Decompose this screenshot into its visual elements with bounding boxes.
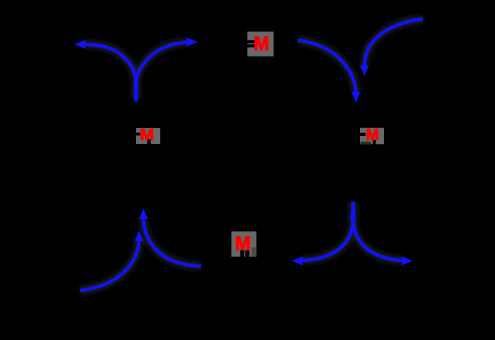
- wire: bottom-right diverging arrow, left branch: [302, 202, 353, 261]
- svg-text:M: M: [140, 127, 154, 144]
- node TL-left arrowhead: [75, 40, 86, 49]
- wire: top-left diverging arrow, left branch: [85, 44, 136, 99]
- svg-text:M: M: [235, 233, 251, 255]
- node top-right metal label box: [360, 128, 384, 144]
- wire: top-right converging arrow, left branch: [298, 40, 356, 93]
- node TL stem taper: [134, 99, 138, 103]
- node TL-right arrowhead: [187, 38, 198, 47]
- node TR-right arrowhead: [360, 65, 369, 76]
- node BR-right arrowhead: [402, 256, 413, 265]
- svg-text:M: M: [366, 127, 379, 144]
- node BR stem bulge: [350, 211, 356, 225]
- wire: top-left diverging arrow, right branch: [136, 42, 188, 99]
- svg-text:M: M: [254, 33, 270, 55]
- node bottom-center metal label box: [231, 231, 256, 256]
- wire halo layer (faint): [80, 19, 423, 291]
- node BL-left arrowhead: [135, 230, 144, 241]
- wire: top-right converging arrow, right branch: [364, 19, 423, 67]
- wire: bottom-left converging arrow, right branch: [143, 218, 201, 266]
- node TL stem bulge: [133, 81, 139, 97]
- wire: bottom-right diverging arrow, right branch: [353, 202, 402, 261]
- node TR-left arrowhead: [351, 92, 360, 103]
- node top-left metal label box: [136, 128, 160, 144]
- node BL-right arrowhead: [139, 208, 148, 219]
- wire: bottom-left converging arrow, left branch: [80, 240, 139, 291]
- node BR-left arrowhead: [292, 256, 303, 265]
- node top-center metal label box: [247, 32, 273, 57]
